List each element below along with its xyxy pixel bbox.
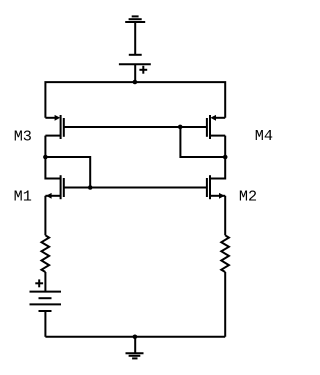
- wire node C to node D: [180, 127, 225, 157]
- svg-text:M3: M3: [14, 127, 32, 145]
- plus sign of battery V1: [35, 279, 43, 287]
- transistor M3 (top lead with arrow, channel bar, gate bar): [45, 115, 63, 139]
- wire M4 drain to M2 drain (right vertical): [210, 136, 225, 179]
- svg-text:M4: M4: [255, 127, 273, 145]
- transistor M1 (channel bar, gate bar, source arrow): [45, 175, 63, 199]
- transistor M4 (top lead with arrow, channel bar, gate bar): [207, 115, 225, 139]
- svg-text:M2: M2: [239, 188, 257, 206]
- wire bottom rail: [45, 336, 225, 338]
- battery V1 (bottom left, two cells): [30, 292, 62, 311]
- wire M3 drain to M1 drain (left vertical): [45, 136, 60, 179]
- wire M2 source down to resistor: [224, 196, 226, 236]
- plus sign of battery V2: [139, 66, 147, 74]
- transistor M2 (channel bar, gate bar, source arrow): [207, 175, 225, 199]
- wire top rail: [45, 82, 225, 118]
- wire M1 source down to resistor: [44, 196, 46, 236]
- ground (top, inverted earth symbol): [125, 16, 145, 54]
- node D (right vertical junction): [223, 155, 228, 160]
- wire battery V2 to top rail: [134, 64, 136, 82]
- node on top rail: [133, 80, 138, 85]
- wire battery V1 to bottom rail: [44, 311, 46, 337]
- battery V2 (top supply, short/long plates): [119, 55, 151, 64]
- node A (left vertical junction): [43, 155, 48, 160]
- node on bottom rail: [133, 335, 138, 340]
- node C (on M3-M4 gate line): [178, 125, 183, 130]
- wire resistor R1 to battery V1: [44, 272, 46, 292]
- wire gate line M1 to M2: [64, 187, 207, 189]
- wire node A to M1 gate line: [45, 157, 90, 188]
- ground (bottom earth symbol): [126, 337, 144, 359]
- wire gate line M3 to M4: [64, 126, 207, 128]
- node B (on M1-M2 gate line): [88, 185, 93, 190]
- resistor R1 (left zigzag): [42, 235, 50, 272]
- resistor R2 (right zigzag): [221, 235, 229, 272]
- wire resistor R2 to bottom rail: [224, 272, 226, 337]
- svg-text:M1: M1: [14, 187, 32, 205]
